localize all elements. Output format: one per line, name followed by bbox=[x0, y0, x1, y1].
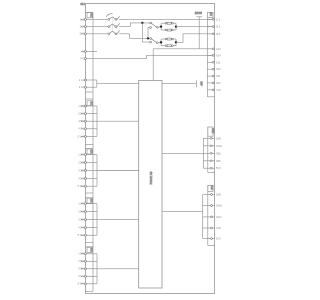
left pin labels bbox=[78, 17, 85, 285]
svg-text:GH: GH bbox=[80, 2, 84, 6]
svg-text:3 BK: 3 BK bbox=[78, 267, 84, 271]
suppressor network F1 frame bbox=[161, 23, 176, 30]
svg-text:3BU: 3BU bbox=[216, 151, 221, 155]
wire block to X10 bbox=[162, 152, 203, 154]
node F1 left bbox=[160, 25, 162, 27]
wire block feed bbox=[152, 49, 154, 81]
cable bracket X11 bbox=[202, 195, 204, 239]
left connector strip body bbox=[85, 12, 93, 291]
connector X11 label box bbox=[208, 185, 214, 192]
svg-text:1BN: 1BN bbox=[216, 136, 221, 140]
svg-text:3L2: 3L2 bbox=[216, 25, 221, 29]
svg-text:2 BU: 2 BU bbox=[78, 259, 84, 263]
svg-text:X11: X11 bbox=[210, 185, 214, 190]
svg-text:3 BK: 3 BK bbox=[78, 218, 84, 222]
svg-text:4 GY: 4 GY bbox=[78, 176, 84, 180]
svg-text:3GN: 3GN bbox=[216, 215, 221, 219]
svg-text:-S8: -S8 bbox=[200, 81, 204, 86]
svg-text:X4: X4 bbox=[89, 248, 93, 252]
right connector X9 pins bbox=[207, 19, 214, 89]
breaker linkage dashed bbox=[111, 16, 113, 31]
terminal strip X1 label box bbox=[87, 101, 93, 106]
X9 pin circles bbox=[212, 19, 214, 91]
node F2 left bbox=[160, 41, 162, 43]
svg-text:2 BU: 2 BU bbox=[78, 160, 84, 164]
terminal strip X0 label box bbox=[87, 13, 93, 18]
svg-text:2WH: 2WH bbox=[216, 204, 222, 208]
svg-text:X2: X2 bbox=[89, 149, 93, 153]
svg-text:N: N bbox=[82, 49, 84, 53]
svg-text:Y40: Y40 bbox=[216, 88, 221, 92]
connector X10 label box bbox=[208, 127, 215, 136]
right connector rail X9 bbox=[207, 18, 214, 97]
svg-text:X3: X3 bbox=[89, 199, 93, 203]
svg-text:4BK: 4BK bbox=[216, 159, 221, 163]
svg-text:X0: X0 bbox=[89, 13, 93, 17]
svg-text:S21: S21 bbox=[216, 74, 221, 78]
svg-text:1 BN: 1 BN bbox=[78, 153, 84, 157]
svg-text:1L1: 1L1 bbox=[80, 17, 85, 21]
svg-text:1 BN: 1 BN bbox=[78, 104, 84, 108]
X10 pin circles bbox=[210, 137, 212, 169]
wire F1 output bbox=[176, 26, 214, 28]
wire W3 to block bbox=[97, 120, 139, 122]
X11 pin labels bbox=[216, 193, 222, 241]
suppressor network F2 frame bbox=[161, 39, 176, 46]
node F1 right bbox=[175, 25, 177, 27]
X9 pin labels bbox=[216, 17, 221, 91]
wire F2 output bbox=[176, 34, 214, 43]
terminal strip X2 label box bbox=[87, 149, 93, 154]
cable bracket W6 bbox=[81, 254, 97, 284]
svg-text:S11: S11 bbox=[216, 60, 221, 64]
svg-text:S12: S12 bbox=[216, 67, 221, 71]
cable bracket X10 bbox=[202, 138, 204, 168]
measuring tag W1 bbox=[196, 17, 202, 49]
fuse element F2b bbox=[165, 45, 173, 47]
right connector rail X10 bbox=[208, 127, 215, 172]
svg-text:1L1: 1L1 bbox=[216, 17, 221, 21]
circuit breaker Q1 pole 3 bbox=[108, 31, 120, 35]
svg-text:1 A1: 1 A1 bbox=[79, 78, 85, 82]
cable bracket W2 bbox=[85, 80, 96, 87]
svg-text:X9: X9 bbox=[209, 12, 213, 16]
cable bracket W4 bbox=[81, 155, 97, 187]
frame border bbox=[85, 4, 214, 294]
wire J1 drop to contact B bbox=[142, 23, 149, 42]
fuse element F2a bbox=[165, 38, 173, 40]
svg-text:3 BK: 3 BK bbox=[78, 119, 84, 123]
svg-text:A14: A14 bbox=[216, 53, 221, 57]
wire L1 phase row bbox=[81, 18, 215, 20]
svg-text:PE: PE bbox=[81, 57, 85, 61]
circuit breaker Q1 pole 2 bbox=[108, 23, 120, 27]
cable bracket W3 bbox=[81, 106, 97, 136]
cable bracket W5 bbox=[81, 204, 97, 236]
selector contact S1b bbox=[150, 38, 161, 44]
svg-text:5L3: 5L3 bbox=[80, 32, 85, 36]
node J2 bbox=[147, 37, 149, 39]
wire W2 to block bbox=[97, 83, 139, 85]
fuse element F1a bbox=[165, 22, 173, 24]
wire W6 to block bbox=[97, 268, 139, 270]
svg-text:A13: A13 bbox=[216, 47, 221, 51]
wire PE run bbox=[85, 55, 214, 58]
svg-text:4 GY: 4 GY bbox=[78, 226, 84, 230]
svg-text:2 BU: 2 BU bbox=[78, 112, 84, 116]
node J1 bbox=[141, 22, 143, 24]
wire supply bus bbox=[153, 48, 214, 50]
svg-text:5 WH: 5 WH bbox=[78, 282, 85, 286]
wire W4 to block bbox=[97, 170, 139, 172]
svg-text:5GY: 5GY bbox=[216, 166, 221, 170]
svg-text:5GY: 5GY bbox=[216, 237, 221, 241]
svg-text:5 WH: 5 WH bbox=[78, 184, 85, 188]
wire W5 to block bbox=[97, 219, 139, 221]
terminal strip X3 label box bbox=[87, 198, 93, 203]
circuit breaker Q1 pole 1 bbox=[108, 16, 120, 20]
svg-text:3 BK: 3 BK bbox=[78, 168, 84, 172]
connector X9 label box bbox=[207, 12, 213, 18]
wire J2 riser to contact A bbox=[148, 28, 150, 39]
svg-text:1W05: 1W05 bbox=[195, 11, 203, 15]
wire N stub bbox=[81, 50, 97, 52]
wire earth lead bbox=[162, 83, 196, 85]
svg-text:2WH: 2WH bbox=[216, 144, 222, 148]
right connector X11 pins bbox=[203, 195, 215, 239]
svg-text:4 GY: 4 GY bbox=[78, 127, 84, 131]
left strip pin circles bbox=[84, 18, 86, 284]
svg-text:1BN: 1BN bbox=[216, 193, 221, 197]
central device block A1 bbox=[139, 80, 162, 288]
right connector X10 pins bbox=[203, 138, 214, 168]
svg-text:3L2: 3L2 bbox=[80, 25, 85, 29]
wire block to X11 bbox=[162, 211, 203, 213]
selector contact S1a bbox=[150, 22, 161, 28]
wire L3 phase row bbox=[81, 34, 150, 39]
svg-text:2 BU: 2 BU bbox=[78, 210, 84, 214]
svg-text:X10: X10 bbox=[211, 128, 215, 133]
terminal strip X4 label box bbox=[87, 247, 93, 252]
svg-text:4YE: 4YE bbox=[216, 226, 221, 230]
svg-text:5 WH: 5 WH bbox=[78, 134, 85, 138]
svg-text:X1: X1 bbox=[89, 101, 93, 105]
svg-text:2 A2: 2 A2 bbox=[79, 85, 85, 89]
svg-text:S22: S22 bbox=[216, 81, 221, 85]
fuse element F1b bbox=[165, 29, 173, 31]
earth terminal bar bbox=[195, 80, 197, 87]
X10 pin labels bbox=[216, 136, 222, 170]
svg-text:1 BN: 1 BN bbox=[78, 202, 84, 206]
wire L2 phase row bbox=[81, 23, 150, 27]
X11 pin circles bbox=[211, 194, 213, 240]
breaker actuator arrow bbox=[106, 14, 112, 17]
svg-text:4 GY: 4 GY bbox=[78, 274, 84, 278]
svg-text:5L3: 5L3 bbox=[216, 32, 221, 36]
node F2 right bbox=[175, 41, 177, 43]
svg-text:PNOZ X3: PNOZ X3 bbox=[149, 171, 153, 184]
svg-text:1 BN: 1 BN bbox=[78, 252, 84, 256]
svg-text:5 WH: 5 WH bbox=[78, 233, 85, 237]
right connector rail X11 bbox=[208, 185, 215, 245]
